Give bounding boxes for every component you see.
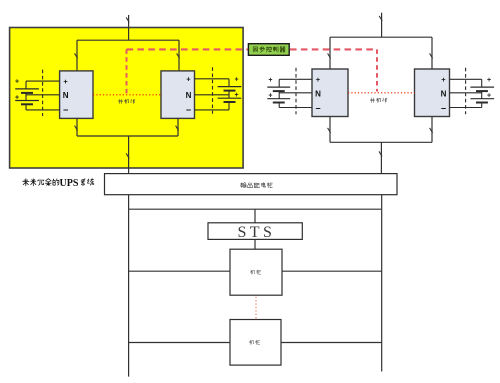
UPS unit 4 <box>415 69 450 117</box>
battery cell 2 plates <box>15 100 39 102</box>
svg-text:+: + <box>441 75 446 84</box>
wire: left riser stub <box>128 195 130 210</box>
wire: rack 2 right feed <box>281 342 382 344</box>
label: parallel line (left) <box>118 99 122 104</box>
wire: drop to UPS3 <box>329 37 331 69</box>
battery cell 2 plates <box>267 98 290 100</box>
wire: STS to rack 1 <box>254 239 256 249</box>
label: rack 2 <box>249 340 253 344</box>
wire: right riser stub <box>381 195 383 210</box>
wire battery + lead <box>195 78 230 80</box>
breaker Q1 on feed <box>126 17 129 22</box>
svg-text:N: N <box>315 89 321 98</box>
wire: right group join bus <box>330 141 432 143</box>
svg-text:+: + <box>487 93 491 100</box>
wire: drop to UPS1 <box>76 40 78 71</box>
sync control dashed drop (left) <box>126 49 128 93</box>
svg-text:STS: STS <box>238 224 276 241</box>
breaker on right group output <box>379 151 382 156</box>
breaker on UPS3 output <box>328 128 331 133</box>
wire: left riser <box>128 209 130 376</box>
svg-text:+: + <box>316 75 321 84</box>
UPS unit 1 <box>60 71 93 119</box>
sync control dashed drop (right) <box>376 49 378 91</box>
svg-text:−: − <box>186 105 191 115</box>
wire: drop to UPS4 <box>431 37 433 69</box>
svg-text:N: N <box>186 91 192 100</box>
battery isolator dashed line <box>465 68 467 115</box>
battery cell 1 plates <box>15 88 39 90</box>
wire: group output feeder <box>128 136 130 174</box>
parallel bus dotted line (left group) <box>93 94 161 96</box>
svg-text:UPS: UPS <box>60 178 79 189</box>
svg-text:+: + <box>186 75 191 84</box>
svg-text:+: + <box>268 93 272 100</box>
battery cell 1 plates <box>267 86 290 88</box>
wire battery N lead <box>450 92 482 94</box>
svg-text:−: − <box>63 105 68 115</box>
wire battery + lead <box>450 78 482 80</box>
battery isolator dashed line <box>295 68 297 115</box>
wire: feed tee inside yellow group <box>128 28 130 41</box>
wire battery stub verticals <box>25 81 27 89</box>
svg-text:N: N <box>441 89 447 98</box>
output distribution cabinet <box>105 174 398 195</box>
breaker on UPS3 input <box>328 53 331 58</box>
label: sync controller <box>253 47 257 52</box>
battery cell 2 plates <box>218 97 242 99</box>
svg-text:+: + <box>487 77 491 84</box>
wire: utility feed to right UPS group <box>381 13 383 38</box>
battery cell 2 plates <box>470 98 494 100</box>
wire: utility feed to redundant UPS group <box>128 15 130 40</box>
UPS unit 3 <box>312 69 348 117</box>
svg-text:N: N <box>63 91 69 100</box>
wire: UPS3 output drop <box>329 117 331 143</box>
breaker on UPS2 input <box>177 53 180 58</box>
svg-text:+: + <box>234 76 238 83</box>
svg-text:+: + <box>15 94 19 101</box>
label: parallel line (right) <box>370 98 374 103</box>
wire: right riser <box>381 209 383 371</box>
breaker on UPS1 input <box>75 53 78 58</box>
svg-text:+: + <box>234 92 238 99</box>
battery isolator dashed line <box>212 67 214 114</box>
wire battery - lead <box>279 107 312 109</box>
svg-text:+: + <box>15 79 19 86</box>
wire battery - lead <box>26 109 60 111</box>
wire battery - lead <box>450 107 482 109</box>
wire battery + lead <box>279 78 312 80</box>
wire: STS feed <box>254 209 256 223</box>
wire: rack 2 left feed <box>129 342 230 344</box>
breaker on UPS4 output <box>430 128 433 133</box>
wire battery N lead <box>279 92 312 94</box>
svg-text:+: + <box>63 77 68 86</box>
breaker on group output <box>126 153 129 158</box>
svg-text:−: − <box>441 103 446 113</box>
wire battery - lead <box>195 109 230 111</box>
STS box <box>208 223 302 240</box>
svg-text:+: + <box>268 77 272 84</box>
wire battery N lead <box>26 94 60 96</box>
label: rack 1 <box>250 270 254 274</box>
rack cabinet 1 <box>230 249 282 295</box>
wire: UPS2 output drop <box>177 118 179 136</box>
breaker on UPS1 output <box>75 126 78 131</box>
wire battery stub verticals <box>481 79 483 87</box>
wire: rack 1 left feed <box>129 270 230 272</box>
sync control dashed line (horizontal) <box>127 48 378 50</box>
wire: rack 1 right feed <box>282 270 382 272</box>
wire: right group output feeder <box>380 142 382 173</box>
wire: output join bus <box>77 135 178 137</box>
wire battery N lead <box>195 94 230 96</box>
wire battery + lead <box>26 80 60 82</box>
wire: distribution bus <box>129 208 382 210</box>
parallel bus dotted line (right group) <box>348 92 415 94</box>
battery cell 1 plates <box>470 86 494 88</box>
breaker on UPS4 input <box>430 53 433 58</box>
wire: UPS4 output drop <box>431 117 433 143</box>
UPS unit 2 <box>161 71 195 119</box>
rack cabinet 2 <box>230 320 281 366</box>
battery cell 1 plates <box>218 86 242 88</box>
wire battery stub verticals <box>278 79 280 87</box>
breaker on UPS2 output <box>176 126 179 131</box>
svg-text:−: − <box>315 103 320 113</box>
UPS group frame (yellow) <box>10 28 244 169</box>
dotted link rack1-rack2 <box>255 297 257 320</box>
label: output distribution cabinet <box>241 182 246 187</box>
wire: right group tee <box>330 36 432 38</box>
battery isolator dashed line <box>42 70 44 117</box>
sync controller box <box>248 44 289 56</box>
label: future redundant UPS system <box>23 179 29 186</box>
wire: drop to UPS2 <box>178 40 180 71</box>
wire: UPS1 output drop <box>76 118 78 136</box>
wire battery stub verticals <box>228 79 230 87</box>
breaker on right feed <box>379 16 382 21</box>
